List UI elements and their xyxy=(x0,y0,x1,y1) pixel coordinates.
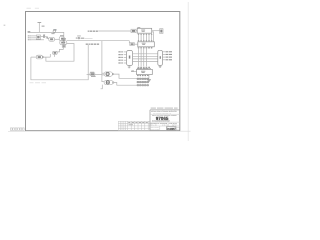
zone marks above top-left corner xyxy=(27,7,31,10)
svg-text:POST OFFICE BOX 2, GREEN BANK,: POST OFFICE BOX 2, GREEN BANK, W. VA. xyxy=(153,113,171,115)
component C8 right xyxy=(160,29,163,34)
P2 ground wire xyxy=(147,75,151,82)
crystal Y1 xyxy=(53,51,58,54)
wire bracket right of boxes xyxy=(152,32,155,44)
svg-text:1 OF 1: 1 OF 1 xyxy=(177,129,180,131)
bus horizontals xyxy=(133,54,158,62)
wire FL1 to box xyxy=(136,30,137,32)
wire Y1 stub xyxy=(54,54,56,57)
divider module U6 xyxy=(138,42,155,47)
resistor row C xyxy=(137,84,149,86)
capacitor C1 body xyxy=(53,30,56,33)
resistor row A xyxy=(137,78,149,80)
title rule 2 xyxy=(150,121,180,123)
title block outline xyxy=(150,110,180,131)
wire G5 output xyxy=(114,74,137,78)
sheet cell xyxy=(177,127,180,131)
net label 5MHz in xyxy=(88,31,98,32)
pins U5 to U6 xyxy=(139,33,152,42)
junction knot xyxy=(63,40,65,42)
U7 ground xyxy=(128,65,131,68)
capacitor C1 xyxy=(53,28,56,31)
label above G2 xyxy=(60,34,64,37)
faint note row xyxy=(30,81,47,84)
+5V label xyxy=(42,26,45,27)
wire TP2 line xyxy=(87,73,102,75)
wire G6 input xyxy=(102,81,104,83)
wire feedback loop left xyxy=(31,45,88,80)
net label below main wire xyxy=(86,44,99,45)
U7 left pins and labels xyxy=(118,51,126,63)
svg-text:DATE 10-5-88: DATE 10-5-88 xyxy=(151,129,159,131)
margin ruler ticks xyxy=(10,128,24,130)
wire main into comp xyxy=(128,41,130,43)
wire loop to cluster xyxy=(46,44,74,62)
gate G6 xyxy=(104,80,114,84)
label below TP2 xyxy=(91,75,96,78)
resistor row B xyxy=(137,81,149,83)
IC U7 xyxy=(127,51,133,66)
+5V T-bar xyxy=(38,22,42,24)
bus vertical end labels xyxy=(138,67,150,68)
U8 right pins and labels xyxy=(162,51,172,60)
component C3 below cluster xyxy=(62,45,65,47)
U6 pin labels bottom xyxy=(138,47,153,48)
bus verticals xyxy=(139,47,147,66)
approvals line xyxy=(151,125,178,127)
gate G2 xyxy=(59,37,65,41)
wire G4 input xyxy=(31,56,36,58)
svg-text:97065: 97065 xyxy=(156,116,169,121)
wire G5 inputs xyxy=(102,73,104,75)
P2 bottom pins xyxy=(138,75,145,77)
wire R1 to U6 xyxy=(134,43,137,45)
comp TP2 xyxy=(90,73,95,75)
gate G1 xyxy=(49,37,55,41)
paper edge bottom right xyxy=(180,130,191,132)
capacitor C2 xyxy=(43,35,45,38)
gate G3 xyxy=(60,41,67,45)
note above title block xyxy=(151,108,178,109)
series comp FL1 xyxy=(131,29,136,32)
wire U1 out xyxy=(41,36,44,38)
border frame xyxy=(26,12,180,131)
series comp R1 xyxy=(130,43,135,46)
label C2 value xyxy=(46,36,48,39)
connector P2 label xyxy=(137,68,151,69)
title rule 1 xyxy=(150,113,180,115)
buffer U1 xyxy=(36,35,40,39)
test point TP1 xyxy=(76,36,93,39)
gate G5 xyxy=(104,72,114,76)
label above TP2 xyxy=(90,71,94,74)
label U2 above G1 xyxy=(51,32,54,35)
drawing number box xyxy=(167,127,176,131)
input stub J1-2 xyxy=(28,36,37,39)
fold mark left margin xyxy=(4,25,6,26)
wire G6 input lower xyxy=(101,85,103,89)
pin labels upper row xyxy=(138,33,152,36)
revision table xyxy=(118,121,150,130)
oscillator module U5 xyxy=(137,28,152,33)
input stub J1-1 xyxy=(28,35,37,38)
wire G6 output xyxy=(114,83,137,86)
P2 pin labels xyxy=(137,74,148,77)
paper edge right xyxy=(187,2,189,141)
label U5 xyxy=(137,26,140,29)
svg-text:SHEET: SHEET xyxy=(177,127,180,129)
label J1 top xyxy=(28,31,31,32)
wire C3 jog xyxy=(57,47,63,52)
wire G4 output xyxy=(44,54,51,57)
wire U5 out right xyxy=(152,30,160,32)
bus vertical end labels row2 xyxy=(138,67,147,70)
wire G1 to G2 xyxy=(55,38,60,40)
wire top (osc input) xyxy=(28,32,64,37)
connector P2 xyxy=(137,69,153,74)
gate G4 xyxy=(36,55,43,59)
input stub J1-3 xyxy=(28,38,44,41)
title rule 3 xyxy=(150,125,180,127)
title cell dividers xyxy=(160,126,176,131)
scale text xyxy=(151,127,159,131)
wire vertical through cluster xyxy=(63,37,65,45)
pin labels lower row xyxy=(138,39,152,42)
U6 bottom pins short xyxy=(149,47,152,49)
wire P2 left pin xyxy=(131,71,137,72)
svg-text:D-23247: D-23247 xyxy=(167,127,176,130)
U8 ground xyxy=(159,65,162,67)
paper edge bottom left xyxy=(8,130,25,132)
wire junction vertical xyxy=(101,41,103,82)
svg-text:SCALE NONE: SCALE NONE xyxy=(151,127,159,129)
IC U8 xyxy=(158,50,163,65)
+5V rail xyxy=(38,23,40,33)
main wire 5MHz xyxy=(67,40,129,42)
wire into upper box xyxy=(98,30,131,32)
wire C2 to G1 xyxy=(45,37,49,39)
